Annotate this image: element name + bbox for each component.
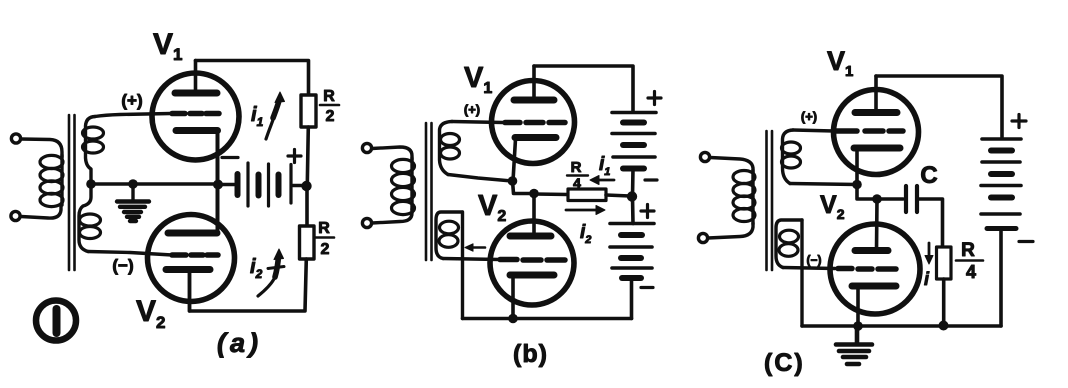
- V2b grid dashes: [500, 257, 565, 263]
- label plus of BC1: [1012, 115, 1026, 128]
- svg-text:2: 2: [326, 108, 335, 125]
- svg-text:R: R: [318, 220, 330, 237]
- label R/2 upper (a): [320, 88, 339, 125]
- label R/4 (c): [956, 240, 983, 282]
- label R/2 lower (a): [315, 220, 334, 258]
- transformer T1c core: [767, 131, 773, 270]
- wire: resistor to battery-right junction (a): [307, 127, 308, 184]
- svg-text:V2: V2: [136, 295, 165, 332]
- wire: V2c plate lead from junction: [875, 199, 879, 250]
- wire: top terminal to primary P1c: [710, 158, 753, 173]
- wire: junction to capacitor C: [877, 197, 903, 201]
- svg-text:(+): (+): [801, 109, 817, 124]
- V1c cathode bar: [854, 145, 900, 152]
- resistor R/4 box (b): [568, 189, 606, 201]
- svg-text:i: i: [924, 269, 930, 289]
- svg-text:R: R: [961, 240, 975, 261]
- V2c cathode lead: [856, 288, 860, 326]
- wire: grid lead V1a: [95, 114, 171, 117]
- node: centre tap junction (a): [86, 179, 96, 189]
- battery B1a plates: [238, 163, 292, 206]
- V2b plate bar: [510, 233, 551, 240]
- input terminal bottom (a): [11, 211, 20, 220]
- wire: top terminal to primary P1b: [372, 147, 412, 160]
- V2a plate bar: [168, 230, 217, 237]
- input terminal top (a): [11, 134, 20, 143]
- tube V2 envelope (c): [830, 224, 920, 314]
- wire: bottom terminal to primary P1a: [21, 206, 61, 218]
- ground symbol (c): [836, 326, 872, 364]
- node: V1b cathode junction: [508, 176, 518, 186]
- label minus of BB2: [641, 286, 653, 289]
- secondary winding S1c lower (2 turns): [776, 220, 802, 268]
- tube V1 envelope (c): [834, 90, 919, 175]
- wire: BB1 bottom stem to mid junction: [631, 169, 635, 197]
- node: battery left junction (a): [213, 180, 223, 190]
- transformer T1b core: [426, 123, 432, 260]
- wire: ground stem (a): [131, 184, 134, 200]
- battery BC1 plates (c): [981, 139, 1021, 229]
- V1b plate lead: [532, 66, 536, 98]
- node: ground tap junction (a): [128, 179, 138, 189]
- svg-text:4: 4: [573, 175, 581, 191]
- label minus of BB1: [645, 178, 657, 181]
- tube V2 envelope (a): [148, 215, 235, 302]
- V2a cathode lead: [188, 272, 192, 311]
- arrow i1 (a): [266, 92, 285, 139]
- wire: V1b plate top run to battery BB1: [534, 66, 633, 112]
- tube V1 envelope (a): [152, 73, 239, 160]
- tube V2 envelope (b): [490, 221, 574, 305]
- svg-text:(+): (+): [121, 91, 142, 110]
- capacitor C plates: [906, 186, 917, 212]
- wire: BB2 bottom stem to bottom rail (b): [630, 278, 634, 319]
- svg-text:4: 4: [966, 262, 976, 282]
- V2b cathode lead: [511, 277, 515, 319]
- V1c plate bar: [855, 109, 897, 116]
- wire: top terminal to primary P1a: [21, 139, 62, 157]
- wire: V2b grid lead: [443, 259, 500, 260]
- svg-text:V1: V1: [464, 62, 492, 97]
- battery B1a right stub: [293, 184, 302, 188]
- svg-text:i2: i2: [250, 256, 263, 281]
- node: cathode-rail junction (b): [508, 314, 518, 324]
- ground symbol (a): [117, 202, 149, 222]
- wire: V1a plate top run: [196, 61, 309, 96]
- wire: bottom terminal to primary P1c: [708, 223, 753, 238]
- wire: battery-right junction down to lower resistor (a): [305, 188, 309, 226]
- battery BB2 stem from mid junction: [631, 197, 635, 224]
- V2a grid dashes: [172, 252, 218, 258]
- node: V2b plate junction: [529, 189, 539, 199]
- svg-text:V2: V2: [478, 190, 506, 225]
- wire: bottom terminal to primary P1b: [372, 209, 412, 223]
- arrow on V2b grid lead: [465, 244, 485, 251]
- svg-text:(+): (+): [464, 102, 480, 117]
- input terminal top (b): [362, 143, 371, 152]
- battery B1a left stub: [221, 183, 234, 187]
- V1b cathode lead: [513, 139, 516, 181]
- svg-text:C: C: [920, 162, 937, 189]
- wire: cathode junction jog to capacitor node (c): [857, 185, 877, 200]
- V2c plate bar: [855, 247, 888, 254]
- V1a plate bar: [175, 90, 217, 97]
- primary winding P1a (4 turns): [40, 155, 63, 207]
- label minus of BC1: [1019, 240, 1033, 243]
- wire: junction to resistor R/4 (b): [534, 192, 568, 196]
- tube V1 envelope (b): [492, 81, 575, 164]
- wire: cathode junction jog down (b): [513, 181, 535, 194]
- svg-text:V2: V2: [820, 191, 845, 222]
- label plus of BB2: [641, 205, 654, 218]
- secondary winding S1a lower (2 turns): [79, 186, 101, 252]
- input terminal top (c): [700, 152, 709, 161]
- svg-text:i2: i2: [580, 222, 591, 246]
- wire: resistor to mid battery junction (b): [606, 195, 630, 196]
- V2b cathode bar: [510, 272, 554, 279]
- V1c plate lead: [874, 76, 878, 110]
- secondary winding S1b upper (2 turns): [440, 122, 460, 175]
- V2c grid dashes: [838, 266, 896, 272]
- V1b cathode bar: [515, 134, 556, 141]
- V1c cathode lead: [855, 150, 859, 185]
- wire: lower resistor to bottom rail then to V2a cathode (a): [190, 259, 307, 311]
- wire: bottom rail (b): [463, 317, 632, 321]
- arrow i (c): [925, 243, 933, 264]
- wire: capacitor to right branch corner (c): [919, 199, 943, 247]
- wire: S1c upper bottom end to V1c cathode junction: [790, 184, 857, 185]
- wire: V1c plate top run to battery BC1: [876, 76, 1002, 137]
- battery BB2 plates (b): [610, 224, 654, 279]
- label plus of BB1: [648, 92, 661, 105]
- svg-text:(−): (−): [112, 256, 133, 275]
- wire: centre tap rail to battery (a): [91, 182, 218, 185]
- svg-text:(b): (b): [513, 340, 548, 368]
- battery BB1 plates (b): [612, 113, 656, 169]
- V1b grid dashes: [505, 120, 565, 126]
- svg-text:V1: V1: [827, 46, 853, 80]
- V1c grid dashes: [835, 128, 903, 134]
- arrow i1 (b): [590, 176, 614, 185]
- node: V1c cathode junction: [852, 180, 862, 190]
- wire: V2c grid lead: [783, 268, 835, 269]
- node: mid battery junction (b): [627, 191, 637, 201]
- transformer T1a core: [69, 115, 75, 270]
- svg-text:i1: i1: [251, 104, 264, 129]
- svg-text:i1: i1: [599, 154, 610, 178]
- svg-text:R: R: [571, 159, 582, 176]
- primary winding P1c (4 turns): [733, 170, 755, 224]
- V2c cathode bar: [852, 283, 896, 290]
- wire: V1c grid lead: [793, 130, 834, 131]
- label minus of B1a: [222, 156, 238, 159]
- arrow i2 (a): [258, 249, 284, 296]
- svg-text:(−): (−): [807, 253, 822, 267]
- wire: resistor to bottom rail (c): [942, 279, 946, 326]
- input terminal bottom (b): [362, 218, 371, 227]
- secondary winding S1c upper (2 turns): [782, 130, 801, 184]
- node: battery right junction (a): [301, 181, 311, 191]
- wire: V1b grid lead: [452, 122, 503, 123]
- V1b plate bar: [514, 97, 554, 104]
- resistor R/2 lower box (a): [300, 226, 315, 259]
- arrow i2 (b): [566, 206, 605, 215]
- wire: S1b upper bottom end to V1b cathode junction: [448, 175, 512, 182]
- input terminal bottom (c): [698, 233, 707, 242]
- label plus of B1a: [288, 150, 301, 163]
- node: cathode-rail junction (c): [853, 321, 863, 331]
- resistor R/4 box (c): [937, 247, 952, 279]
- V2a cathode bar: [166, 266, 210, 273]
- wire: BC1 bottom stem down to bottom rail (c): [999, 230, 1003, 326]
- secondary winding S1a upper (2 turns): [83, 117, 104, 182]
- resistor R/2 upper box (a): [301, 95, 316, 127]
- secondary winding S1b lower (2 turns): [436, 212, 462, 259]
- node: resistor-rail junction (c): [939, 321, 949, 331]
- svg-text:V1: V1: [153, 28, 182, 64]
- wire: V2b plate lead from junction: [532, 194, 536, 237]
- label R/4 (b): [567, 159, 588, 191]
- V1a grid dashes: [172, 111, 219, 117]
- svg-text:2: 2: [321, 241, 330, 258]
- figure number badge 1: [36, 301, 76, 341]
- wire: S1b lower right-side vertical to bottom rail: [461, 212, 464, 319]
- svg-text:R: R: [323, 88, 335, 105]
- wire: V2a grid lead from lower winding: [88, 252, 172, 256]
- V1a plate lead: [194, 61, 198, 93]
- node: V2c plate junction: [872, 194, 882, 204]
- wire: bottom rail (c): [802, 324, 1001, 328]
- svg-text:(C): (C): [764, 349, 805, 377]
- wire: S1c lower right-side vertical to bottom rail: [800, 220, 803, 326]
- wire: V1a cathode / V2a plate common lead: [216, 131, 220, 234]
- primary winding P1b (4 turns): [392, 158, 415, 215]
- svg-text:(a): (a): [217, 328, 262, 358]
- V1a cathode bar: [176, 127, 218, 134]
